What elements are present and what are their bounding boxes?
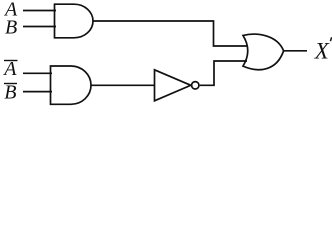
wire OR output — [284, 50, 307, 52]
wire G1 output to OR top input — [93, 21, 248, 46]
wire B input — [23, 26, 56, 28]
overbar of A — [4, 60, 18, 62]
and-gate G2 — [51, 66, 92, 104]
and-gate G1 — [55, 4, 94, 38]
wire Bbar input — [23, 91, 52, 93]
overbar of B — [4, 83, 17, 85]
svg-text:A: A — [2, 58, 17, 80]
wire inverter output to OR bottom input — [200, 61, 247, 85]
or-gate G3 — [243, 34, 284, 70]
inverter bubble — [192, 82, 199, 89]
wire G2 output to inverter — [91, 84, 156, 86]
prime mark — [330, 37, 331, 41]
inverter U1 — [155, 70, 191, 101]
svg-text:B: B — [4, 82, 16, 104]
svg-text:X: X — [314, 39, 330, 64]
wire A input — [23, 10, 56, 12]
wire Abar input — [23, 72, 52, 74]
svg-text:B: B — [5, 17, 17, 39]
